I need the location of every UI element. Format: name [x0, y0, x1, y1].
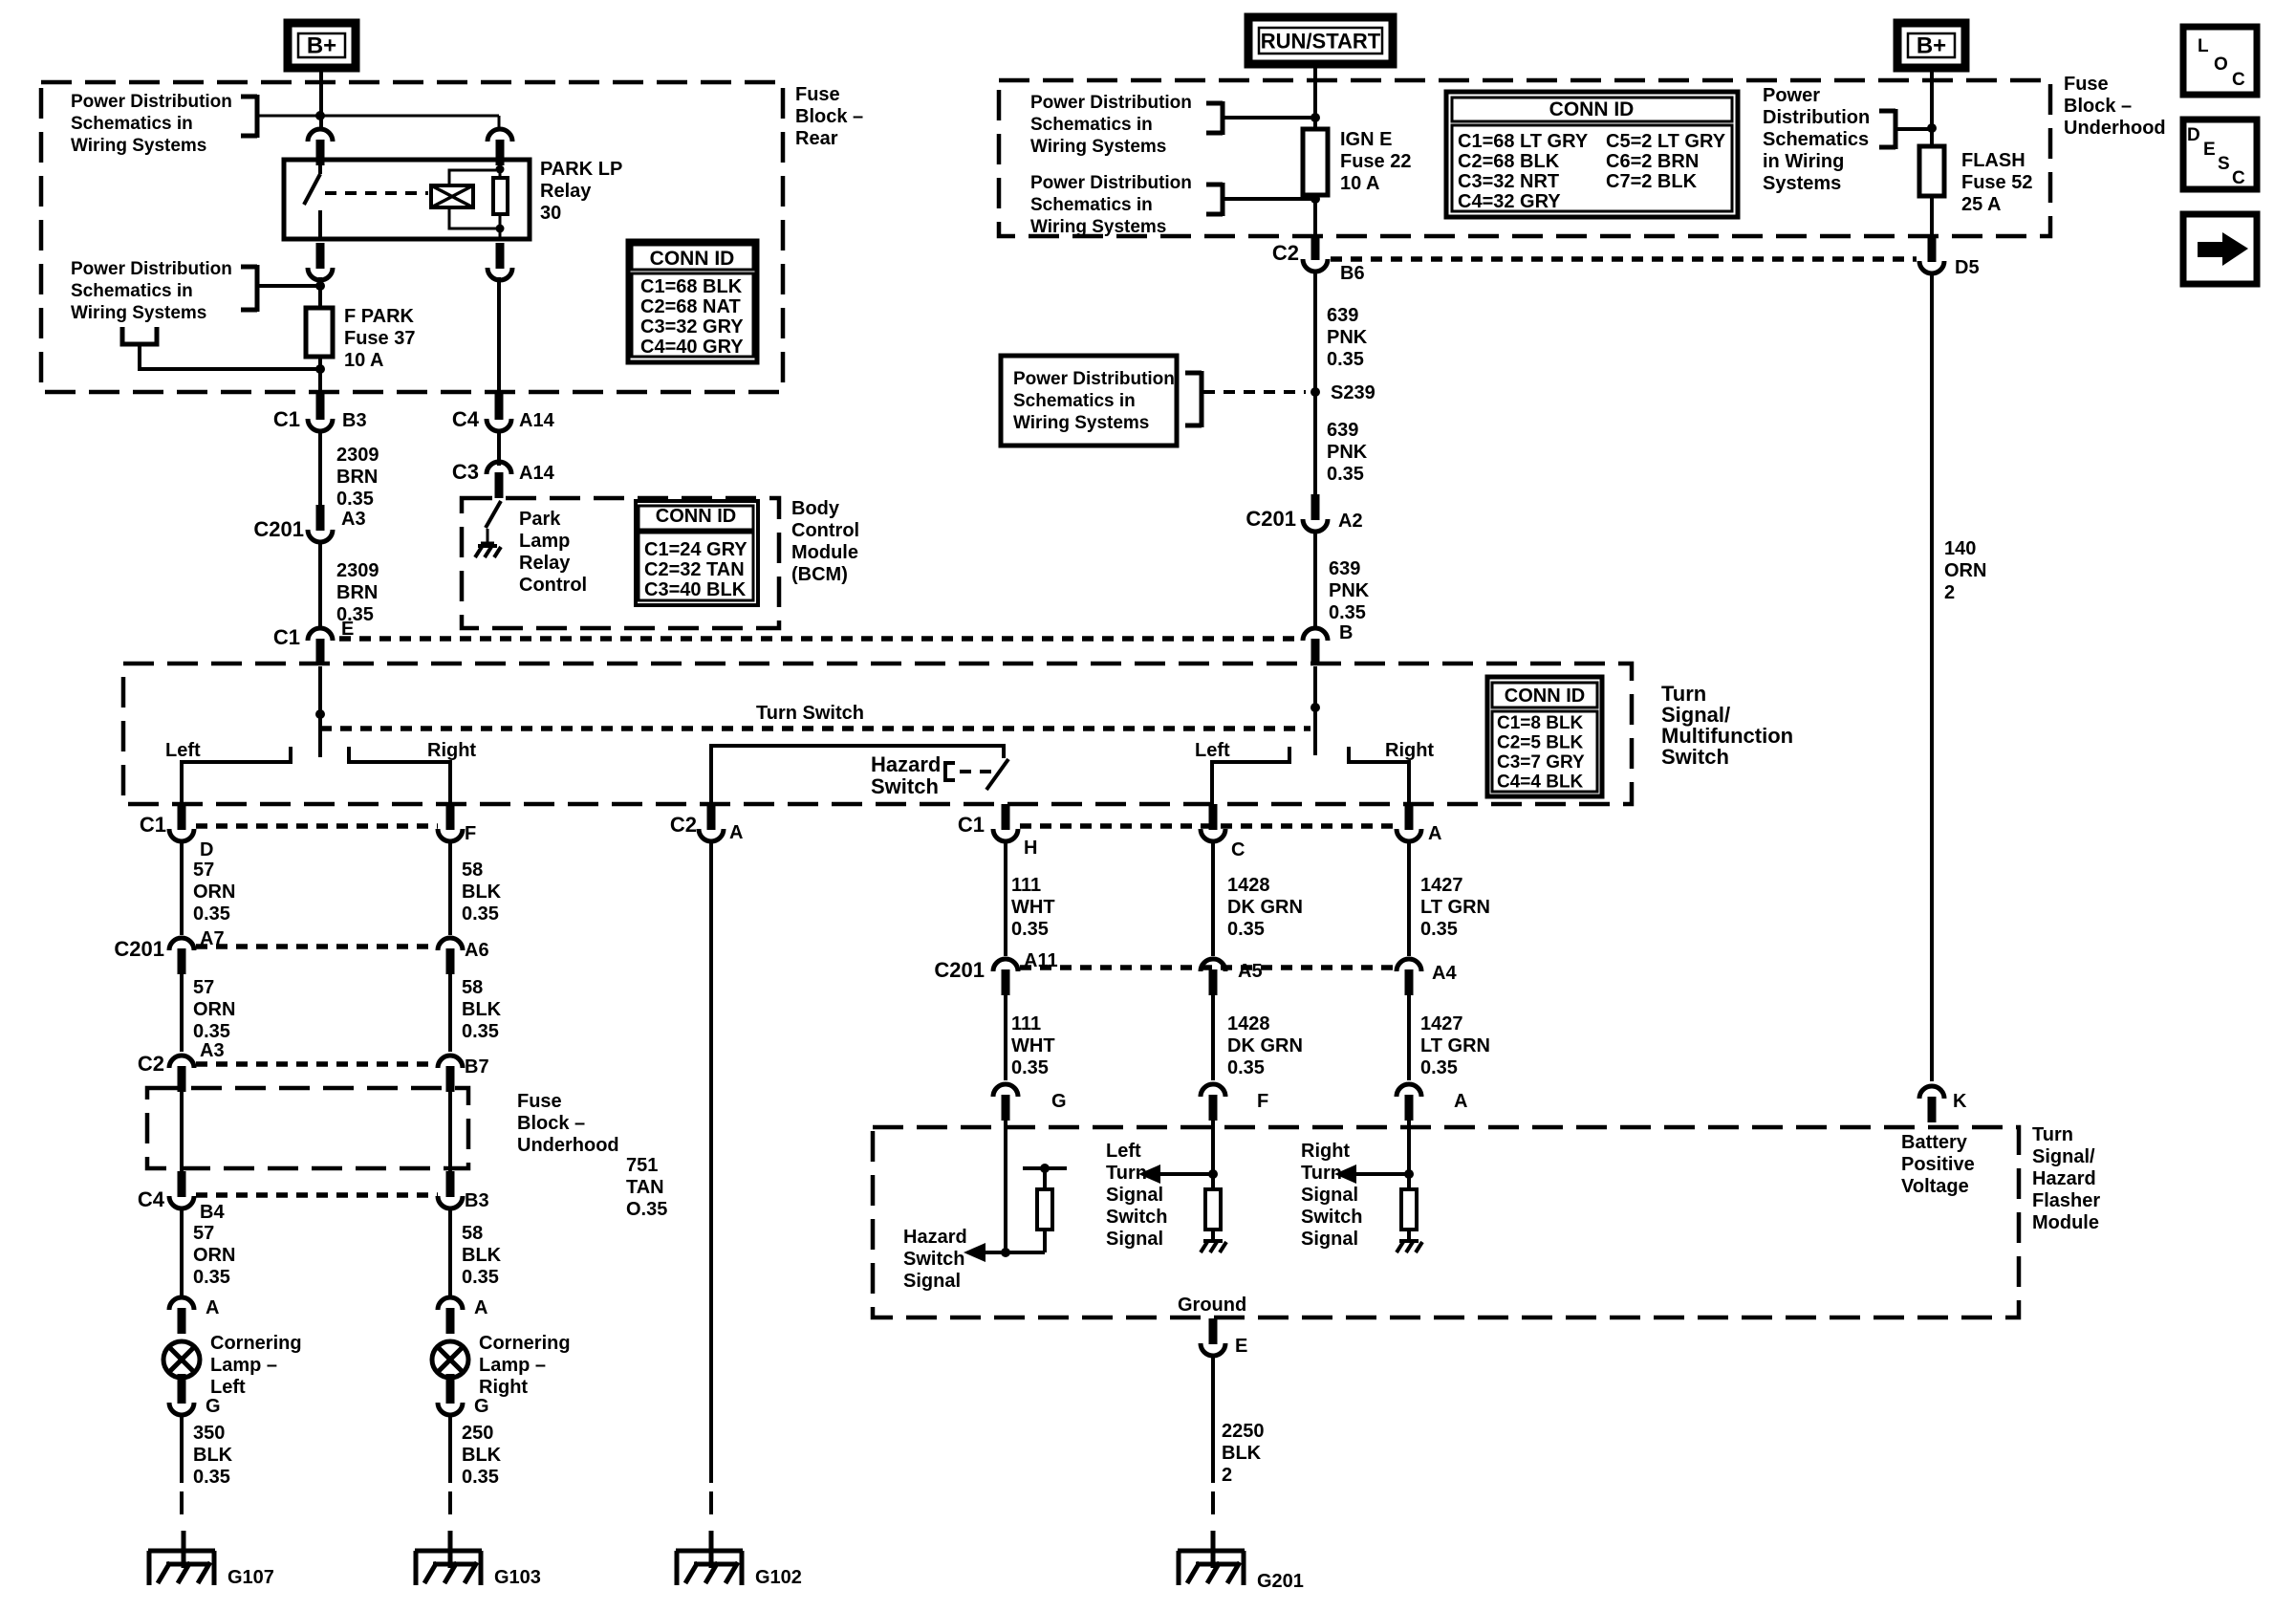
svg-text:Signal: Signal [1301, 1185, 1358, 1206]
junction dot hazard signal [1001, 1248, 1010, 1257]
svg-text:C: C [2232, 168, 2245, 188]
svg-text:0.35: 0.35 [193, 1021, 230, 1042]
box arrow [2183, 214, 2257, 284]
fuse IGN E 22 [1303, 129, 1328, 195]
bracket flash [1879, 109, 1895, 149]
label Left (right switch) [1195, 740, 1230, 761]
wire A7 down [180, 972, 184, 1052]
svg-text:A2: A2 [1338, 511, 1363, 532]
wire label 751 TAN O.35 [626, 1155, 667, 1220]
wire A into module [1407, 1121, 1411, 1189]
wire gap dash (G201) [1211, 1491, 1215, 1522]
connector C4 B4 [138, 1171, 226, 1223]
svg-text:G: G [474, 1396, 489, 1417]
svg-text:Fuse 22: Fuse 22 [1340, 151, 1411, 172]
svg-text:0.35: 0.35 [1329, 602, 1366, 623]
svg-text:BRN: BRN [336, 582, 378, 603]
label Power Distribution Schematics (ign lower) [1030, 173, 1192, 237]
svg-text:0.35: 0.35 [336, 489, 374, 510]
svg-text:57: 57 [193, 977, 214, 998]
connector C4 A14 [452, 394, 555, 431]
svg-text:B: B [1339, 622, 1353, 643]
wire H down [1004, 839, 1007, 956]
wire A6 down [448, 972, 452, 1052]
svg-text:K: K [1953, 1091, 1967, 1112]
svg-text:0.35: 0.35 [1327, 464, 1364, 485]
power symbol B+ (right) [1897, 23, 1965, 68]
svg-text:Control: Control [791, 520, 859, 541]
svg-text:BLK: BLK [462, 999, 502, 1020]
svg-text:C2=32 TAN: C2=32 TAN [644, 559, 745, 580]
svg-text:(BCM): (BCM) [791, 564, 848, 585]
svg-text:O: O [2214, 54, 2228, 75]
connector A (flasher) [1397, 1084, 1467, 1121]
svg-text:C2: C2 [138, 1052, 164, 1076]
svg-text:B+: B+ [307, 33, 336, 59]
svg-text:2250: 2250 [1222, 1421, 1265, 1442]
svg-text:Rear: Rear [795, 128, 838, 149]
label Left Turn Signal Switch Signal [1106, 1141, 1167, 1250]
label S239 [1331, 382, 1375, 403]
label Body Control Module (BCM) [791, 498, 859, 585]
svg-text:Hazard: Hazard [2032, 1168, 2096, 1189]
wire B4 down [180, 1207, 184, 1295]
wire label 1428 DK GRN 0.35 (1) [1227, 875, 1303, 940]
connector D5 [1919, 236, 1980, 278]
wire label 639 PNK 0.35 (2) [1327, 420, 1368, 485]
connector A (lamp left) [169, 1297, 219, 1334]
svg-text:C201: C201 [934, 958, 985, 982]
hazard feed wire [711, 746, 1004, 804]
bracket ign lower [1206, 183, 1223, 216]
svg-text:0.35: 0.35 [462, 1021, 499, 1042]
svg-text:Power Distribution: Power Distribution [71, 92, 232, 112]
svg-text:Wiring Systems: Wiring Systems [1030, 137, 1166, 157]
CONN ID table (fuse block rear) [628, 241, 757, 362]
svg-text:Switch: Switch [1301, 1207, 1362, 1228]
svg-text:C1=24 GRY: C1=24 GRY [644, 539, 747, 560]
svg-text:Cornering: Cornering [210, 1333, 302, 1354]
svg-text:Cornering: Cornering [479, 1333, 571, 1354]
connector C201 A2 [1245, 494, 1362, 532]
svg-text:C4: C4 [138, 1187, 165, 1211]
svg-text:Turn: Turn [1106, 1163, 1147, 1184]
switch contact right (left) [349, 747, 450, 804]
svg-text:Switch: Switch [903, 1249, 964, 1270]
svg-text:0.35: 0.35 [462, 1267, 499, 1288]
svg-text:Voltage: Voltage [1901, 1176, 1969, 1197]
wire B into switch [1313, 666, 1317, 755]
svg-text:Body: Body [791, 498, 840, 519]
svg-text:Power Distribution: Power Distribution [1030, 93, 1192, 113]
svg-text:Schematics: Schematics [1763, 129, 1869, 150]
svg-text:0.35: 0.35 [1227, 1057, 1265, 1078]
switch contact left (left) [182, 747, 291, 804]
ground G102 [676, 1531, 802, 1588]
svg-text:Power Distribution: Power Distribution [1013, 369, 1175, 389]
svg-text:Switch: Switch [1661, 745, 1729, 769]
svg-text:C6=2 BRN: C6=2 BRN [1606, 151, 1699, 172]
node junction at B+ feed [315, 111, 325, 120]
svg-text:BLK: BLK [193, 1445, 233, 1466]
svg-text:F PARK: F PARK [344, 306, 415, 327]
svg-text:F: F [465, 823, 476, 844]
svg-text:Schematics in: Schematics in [71, 281, 193, 301]
wire A11 down [1004, 993, 1007, 1080]
svg-text:0.35: 0.35 [1227, 919, 1265, 940]
wire A3 to C1 E [318, 541, 322, 626]
svg-text:C4=32 GRY: C4=32 GRY [1458, 191, 1561, 212]
label Cornering Lamp Right [479, 1333, 571, 1398]
svg-text:B7: B7 [465, 1056, 489, 1078]
connector C201 A3 [253, 505, 365, 542]
ground G201 [1178, 1531, 1304, 1592]
svg-text:1427: 1427 [1420, 1013, 1463, 1034]
connector K (flasher) [1919, 1086, 1967, 1122]
svg-text:D5: D5 [1955, 257, 1980, 278]
svg-text:Battery: Battery [1901, 1132, 1968, 1153]
svg-text:PNK: PNK [1327, 442, 1368, 463]
wire bracket to ign node 2 [1223, 197, 1315, 201]
wire label 57 ORN 0.35 (3) [193, 1223, 235, 1288]
ground small (park lamp relay control) [475, 529, 501, 557]
svg-text:C2: C2 [1272, 241, 1299, 265]
relay coil bottom wire [449, 207, 496, 229]
switch contact right (right) [1349, 747, 1409, 804]
svg-text:Power: Power [1763, 85, 1820, 106]
wire B+ right down [1930, 68, 1934, 146]
label Power Distribution Schematics (ign upper) [1030, 93, 1192, 157]
svg-text:Wiring Systems: Wiring Systems [1013, 413, 1149, 433]
connector C (left turn) [1201, 804, 1245, 860]
svg-text:G: G [206, 1396, 221, 1417]
label Turn Signal Multifunction Switch [1661, 682, 1793, 769]
wire label 350 BLK 0.35 [193, 1423, 233, 1488]
bracket ign upper [1206, 101, 1223, 135]
wire label 58 BLK 0.35 (1) [462, 860, 502, 925]
svg-text:0.35: 0.35 [462, 1467, 499, 1488]
svg-text:A: A [1454, 1091, 1467, 1112]
svg-text:Power Distribution: Power Distribution [71, 259, 232, 279]
svg-text:B3: B3 [342, 410, 367, 431]
ground small (right turn) [1397, 1230, 1422, 1252]
svg-text:Flasher: Flasher [2032, 1190, 2100, 1211]
wire label 2309 BRN 0.35 (1) [336, 445, 379, 510]
connector E (ground) [1201, 1318, 1247, 1357]
dashed box Turn Signal Multifunction Switch [123, 664, 1632, 804]
wire bracket to ign node [1223, 116, 1315, 120]
svg-text:Schematics in: Schematics in [1013, 391, 1136, 411]
label Left (left switch) [165, 740, 201, 761]
svg-text:C3=7 GRY: C3=7 GRY [1497, 752, 1585, 773]
connector C1 H [958, 804, 1038, 859]
wire lamp right down [448, 1413, 452, 1483]
junction dot S239 [1310, 387, 1320, 397]
svg-text:639: 639 [1327, 305, 1358, 326]
label Fuse Block - Underhood (small) [517, 1091, 619, 1156]
svg-text:1427: 1427 [1420, 875, 1463, 896]
arrow right turn signal [1334, 1165, 1409, 1184]
wire label 57 ORN 0.35 (1) [193, 860, 235, 925]
solid box Power Distribution Schematics [1001, 356, 1177, 446]
connector C2 A (hazard feed) [670, 804, 744, 843]
svg-text:L: L [2198, 36, 2209, 56]
svg-text:LT GRN: LT GRN [1420, 1035, 1490, 1056]
dashed box Fuse Block Underhood (small) [147, 1088, 468, 1168]
svg-text:C201: C201 [253, 517, 304, 541]
svg-text:Left: Left [1106, 1141, 1141, 1162]
CONN ID table (turn switch) [1487, 677, 1602, 796]
wire label 250 BLK 0.35 [462, 1423, 502, 1488]
label Fuse Block - Rear [795, 84, 863, 149]
svg-text:A: A [474, 1297, 487, 1318]
svg-text:A5: A5 [1238, 961, 1263, 982]
svg-text:C3=32 GRY: C3=32 GRY [640, 316, 744, 337]
wire E into switch [318, 666, 322, 757]
dashed line to S239 [1203, 390, 1306, 394]
svg-text:Underhood: Underhood [2064, 118, 2166, 139]
svg-text:140: 140 [1944, 538, 1976, 559]
dotted line row C1 H-C-A [1020, 823, 1397, 829]
svg-text:C4=40 GRY: C4=40 GRY [640, 337, 744, 358]
label Battery Positive Voltage [1901, 1132, 1975, 1197]
wire gap dash (G107) [180, 1491, 184, 1522]
svg-text:Fuse: Fuse [795, 84, 840, 105]
svg-text:Left: Left [210, 1377, 246, 1398]
arrow left turn signal [1138, 1165, 1213, 1184]
relay actuation dashed line [325, 191, 428, 195]
label F PARK Fuse 37 10 A [344, 306, 415, 371]
svg-text:C1=8 BLK: C1=8 BLK [1497, 713, 1584, 733]
svg-text:Fuse 37: Fuse 37 [344, 328, 415, 349]
svg-text:B3: B3 [465, 1190, 489, 1211]
cup connector symbol [122, 327, 157, 344]
svg-text:111: 111 [1011, 875, 1041, 896]
CONN ID table (underhood) [1446, 92, 1738, 217]
connector G (lamp right) [438, 1378, 489, 1417]
hazard resistor branch [1006, 1164, 1067, 1252]
svg-text:Right: Right [479, 1377, 528, 1398]
svg-text:BLK: BLK [462, 1245, 502, 1266]
svg-text:Wiring Systems: Wiring Systems [71, 136, 206, 156]
svg-text:C2=68 BLK: C2=68 BLK [1458, 151, 1560, 172]
wire label 140 ORN 2 [1944, 538, 1986, 603]
svg-text:LT GRN: LT GRN [1420, 897, 1490, 918]
switch contact left (right) [1212, 747, 1289, 804]
connector B7 [438, 1056, 489, 1092]
wire B3 down [448, 1207, 452, 1295]
svg-text:58: 58 [462, 1223, 483, 1244]
wire label 1428 DK GRN 0.35 (2) [1227, 1013, 1303, 1078]
connector C1 D [140, 804, 214, 860]
box LOC [2183, 27, 2257, 95]
svg-text:Positive: Positive [1901, 1154, 1975, 1175]
svg-text:DK GRN: DK GRN [1227, 897, 1303, 918]
dotted line B6 to D5 [1331, 256, 1917, 262]
svg-text:A3: A3 [200, 1040, 225, 1061]
wire cup to fuse output [140, 344, 320, 369]
svg-text:0.35: 0.35 [462, 903, 499, 925]
svg-text:2: 2 [1944, 582, 1955, 603]
wire bracket to node [257, 115, 499, 118]
wire lamp left down [180, 1413, 184, 1483]
svg-text:C7=2 BLK: C7=2 BLK [1606, 171, 1698, 192]
wire label 57 ORN 0.35 (2) [193, 977, 235, 1042]
junction dot turn switch right [1310, 703, 1320, 712]
svg-text:IGN E: IGN E [1340, 129, 1392, 150]
svg-text:10 A: 10 A [344, 350, 384, 371]
wire label 111 WHT 0.35 (2) [1011, 1013, 1055, 1078]
svg-text:C3: C3 [452, 460, 479, 484]
svg-text:Right: Right [1301, 1141, 1350, 1162]
wire D down [180, 839, 184, 935]
wire bracket to fuse node [257, 284, 320, 288]
svg-text:G201: G201 [1257, 1571, 1304, 1592]
svg-text:G102: G102 [755, 1567, 802, 1588]
svg-text:BLK: BLK [462, 882, 502, 903]
svg-text:Right: Right [427, 740, 476, 761]
label Turn Signal Hazard Flasher Module [2032, 1124, 2100, 1233]
connector C1 B3 [273, 394, 367, 431]
connector A (right turn) [1397, 804, 1441, 844]
wire A2 down to B [1313, 531, 1317, 626]
svg-text:Distribution: Distribution [1763, 107, 1870, 128]
connector A6 [438, 938, 489, 974]
svg-text:C4: C4 [452, 407, 480, 431]
connector B (BCM) [1303, 622, 1353, 664]
wire gap dash (G103) [448, 1491, 452, 1522]
wire relay out right down [497, 277, 501, 398]
junction dot right turn [1404, 1169, 1414, 1179]
svg-text:ORN: ORN [193, 1245, 235, 1266]
CONN ID table (BCM) [636, 501, 758, 605]
junction dot below fuse [315, 364, 325, 374]
svg-text:E: E [2203, 140, 2216, 160]
label Cornering Lamp Left [210, 1333, 302, 1398]
svg-text:Schematics in: Schematics in [1030, 115, 1153, 135]
wire gap dash (G102) [709, 1491, 713, 1522]
junction dot left turn [1208, 1169, 1218, 1179]
connector C2 B6 [1272, 234, 1365, 284]
svg-text:G: G [1051, 1091, 1067, 1112]
wire fuse to box edge [318, 357, 322, 394]
svg-text:Ground: Ground [1178, 1295, 1246, 1316]
svg-text:A14: A14 [519, 463, 555, 484]
wire F into module [1211, 1121, 1215, 1189]
svg-text:Block –: Block – [2064, 96, 2132, 117]
svg-text:C2=68 NAT: C2=68 NAT [640, 296, 741, 317]
relay resistor [493, 160, 508, 239]
fuse FLASH 52 [1919, 146, 1944, 196]
svg-text:C201: C201 [1245, 507, 1296, 531]
label Turn Switch [756, 703, 864, 724]
junction dot coil bottom [496, 225, 505, 233]
svg-text:Turn: Turn [1301, 1163, 1342, 1184]
svg-text:Schematics in: Schematics in [1030, 195, 1153, 215]
label Hazard Switch Signal [903, 1227, 967, 1292]
connector G (lamp left) [169, 1378, 221, 1417]
svg-text:H: H [1024, 838, 1037, 859]
svg-text:Control: Control [519, 575, 587, 596]
svg-text:Signal: Signal [1106, 1229, 1163, 1250]
svg-text:ORN: ORN [1944, 560, 1986, 581]
svg-text:Hazard: Hazard [871, 752, 941, 776]
wire relay to fuse [318, 277, 322, 308]
svg-text:Wiring Systems: Wiring Systems [1030, 217, 1166, 237]
svg-text:2: 2 [1222, 1465, 1232, 1486]
svg-text:Park: Park [519, 509, 561, 530]
connector relay out right [487, 243, 512, 280]
svg-text:A3: A3 [341, 509, 366, 530]
relay coil top wire [449, 170, 496, 185]
svg-text:0.35: 0.35 [1011, 919, 1049, 940]
hazard switch bracket [945, 761, 955, 782]
svg-text:Module: Module [2032, 1212, 2099, 1233]
wire label 1427 LT GRN 0.35 (1) [1420, 875, 1490, 940]
svg-text:BLK: BLK [1222, 1443, 1262, 1464]
svg-text:C: C [2232, 70, 2245, 90]
dotted line BCM pins row [339, 636, 1303, 642]
dotted line row C201 A11-A5-A4 [1020, 965, 1397, 970]
label PARK LP Relay 30 [540, 159, 622, 224]
svg-text:in Wiring: in Wiring [1763, 151, 1844, 172]
svg-text:0.35: 0.35 [193, 903, 230, 925]
svg-text:2309: 2309 [336, 560, 379, 581]
connector C201 A11 [934, 950, 1057, 995]
svg-text:BRN: BRN [336, 467, 378, 488]
svg-text:BLK: BLK [462, 1445, 502, 1466]
relay switch blade [304, 160, 320, 239]
svg-text:1428: 1428 [1227, 1013, 1270, 1034]
junction dot ign bottom [1310, 194, 1320, 204]
svg-text:10 A: 10 A [1340, 173, 1380, 194]
cornering lamp right [432, 1341, 468, 1397]
wire A down [1407, 839, 1411, 956]
svg-text:58: 58 [462, 860, 483, 881]
label Right Turn Signal Switch Signal [1301, 1141, 1362, 1250]
junction dot above fuse [315, 281, 325, 291]
wire label 1427 LT GRN 0.35 (2) [1420, 1013, 1490, 1078]
svg-text:A: A [729, 822, 743, 843]
svg-text:0.35: 0.35 [193, 1467, 230, 1488]
svg-text:Signal: Signal [1106, 1185, 1163, 1206]
wire C down [1211, 839, 1215, 956]
label IGN E Fuse 22 10 A [1340, 129, 1411, 194]
connector F [438, 804, 476, 844]
power symbol RUN/START [1248, 17, 1393, 64]
wire A14 to C3 [497, 430, 501, 466]
svg-text:CONN ID: CONN ID [1549, 98, 1635, 120]
power symbol B+ (left) [288, 23, 356, 68]
dashed box Fuse Block - Rear [41, 82, 783, 392]
wire label 111 WHT 0.35 (1) [1011, 875, 1055, 940]
wire label 58 BLK 0.35 (3) [462, 1223, 502, 1288]
wire bracket to flash node [1895, 127, 1932, 131]
wire flash fuse down [1930, 196, 1934, 239]
svg-text:30: 30 [540, 203, 561, 224]
svg-text:C1: C1 [273, 407, 300, 431]
svg-text:C: C [1231, 839, 1245, 860]
svg-text:C4=4 BLK: C4=4 BLK [1497, 773, 1584, 793]
svg-text:E: E [1235, 1336, 1247, 1357]
svg-text:C2: C2 [670, 813, 697, 837]
svg-text:639: 639 [1327, 420, 1358, 441]
svg-text:C3=32 NRT: C3=32 NRT [1458, 171, 1559, 192]
svg-text:0.35: 0.35 [1327, 349, 1364, 370]
svg-text:WHT: WHT [1011, 897, 1055, 918]
svg-text:S239: S239 [1331, 382, 1375, 403]
svg-text:Lamp: Lamp [519, 531, 570, 552]
